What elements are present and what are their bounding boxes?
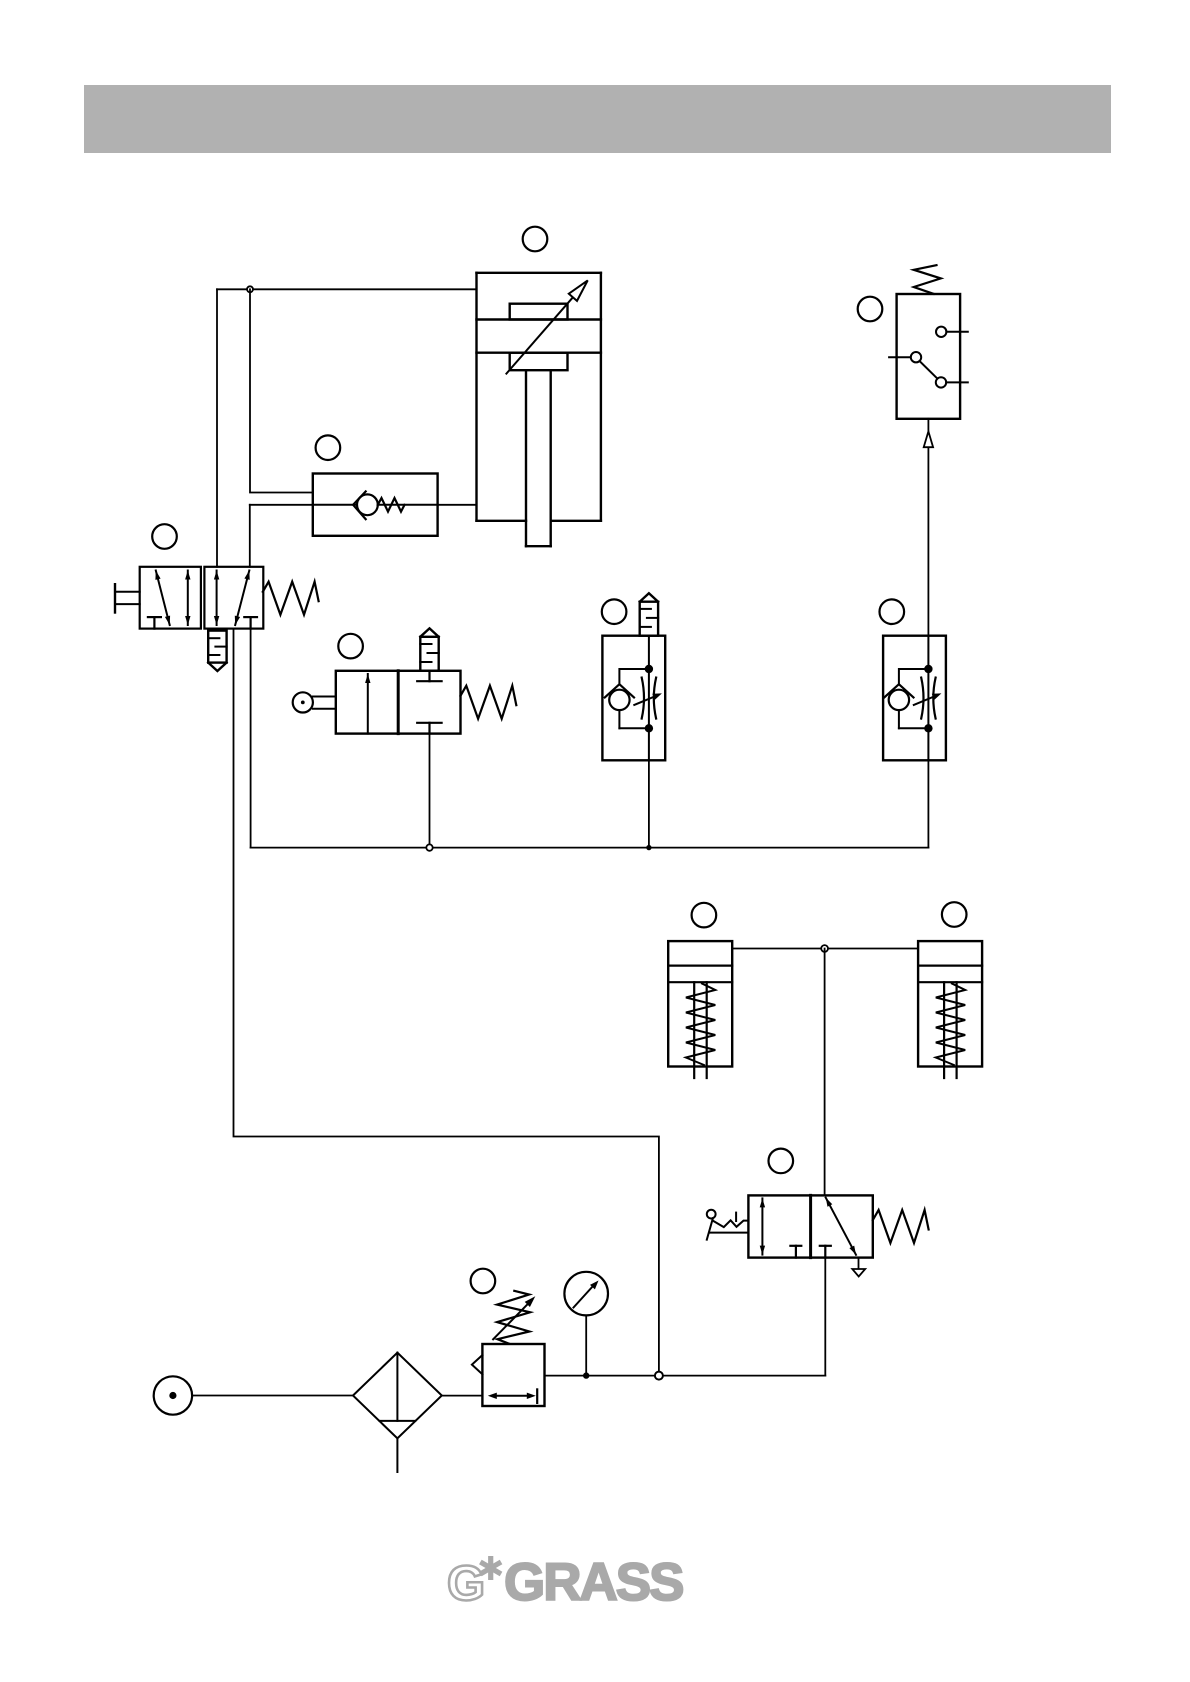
label circle for cylinder C1 — [523, 227, 548, 252]
valve V1 exhaust silencer — [208, 631, 226, 671]
wire: flow control V7 top up to pilot of valve V3 — [927, 447, 929, 636]
label circle for check valve V5 — [316, 435, 341, 460]
label circle for cylinder C3 — [942, 902, 967, 927]
wire: J1 down to check valve V5 upper-left connection — [250, 289, 313, 492]
valve V2 flow path arrow — [365, 674, 370, 734]
wire: filter to regulator — [442, 1395, 483, 1397]
wire: J4 down to valve V4 top port — [824, 949, 826, 1196]
valve V4 idle-return roller lever — [707, 1210, 749, 1240]
wire: node at V1 port 4 up and across to cylinder C1 upper port — [217, 289, 477, 567]
valve V3 spring — [914, 265, 941, 294]
wire: V2 output down to bus — [429, 734, 431, 848]
regulator R1 adjustment spring — [497, 1291, 530, 1344]
wire: flow control V6 bottom to bus — [648, 760, 650, 847]
label circle for regulator R1 — [471, 1269, 496, 1294]
label circle for flow control V6 — [602, 599, 627, 624]
valve V4 return spring — [873, 1210, 929, 1243]
valve V1 body (5/2 hand valve) — [140, 567, 264, 629]
valve V4 flow path vertical — [760, 1198, 765, 1254]
valve V2 blocked port T top — [417, 671, 441, 681]
junction J3 on bus at V6 — [646, 845, 651, 850]
wire: cylinder C2 port to cylinder C3 port — [732, 948, 918, 950]
check valve V5 (spring-loaded, in enclosure) — [313, 474, 438, 536]
valve V4 flow path diagonal — [826, 1198, 856, 1255]
valve V1 flow path vertical left — [185, 571, 190, 626]
junction J6 at supply riser — [655, 1372, 663, 1380]
valve V4 blocked port T right — [820, 1246, 831, 1258]
flow control valve V6 silencer — [640, 593, 658, 635]
junction J5 at gauge connection — [583, 1372, 589, 1378]
air supply source S1 — [154, 1376, 192, 1414]
wire: valve V4 bottom port down to regulator output line — [824, 1258, 826, 1376]
valve V2 blocked port T bottom — [417, 723, 441, 734]
valve V1 flow path diagonal right — [235, 571, 250, 626]
valve V4 exhaust port — [852, 1258, 865, 1277]
valve V1 flow path vertical right — [214, 571, 219, 626]
valve V4 blocked port T left — [790, 1246, 801, 1258]
wire: V1 port 1 supply line down, across and down to regulator output node J6 — [234, 629, 659, 1376]
filter F1 (with water trap) — [353, 1353, 442, 1472]
valve V3 contact lower right — [936, 377, 968, 387]
GRASS logo — [447, 1553, 683, 1612]
valve V1 flow path diagonal left — [155, 571, 170, 626]
flow control valve V7 (throttle with check bypass) — [883, 636, 946, 761]
valve V3 switch link — [920, 361, 938, 379]
svg-text:GRASS: GRASS — [504, 1553, 683, 1612]
junction J4 between cylinders — [821, 945, 828, 952]
junction J1 — [247, 286, 253, 292]
wire: bus up to flow control V7 bottom — [927, 760, 929, 847]
label circle for valve V3 — [858, 297, 883, 322]
cylinder C2 (single-acting, spring return) — [668, 941, 732, 1078]
valve V3 body (pneumatic switch) — [897, 294, 961, 419]
flow control valve V6 (throttle with check bypass) — [602, 636, 665, 761]
wire: check valve V5 left port to V1 port 2 — [250, 505, 313, 567]
label circle for valve V2 — [338, 634, 363, 659]
valve V2 return spring — [461, 686, 517, 719]
regulator R1 adjustment arrow — [493, 1296, 535, 1339]
label circle for valve V1 — [152, 524, 177, 549]
cylinder C1 (press ram with adjustable stroke) — [477, 273, 601, 546]
valve V3 contact upper right — [936, 327, 968, 337]
title bar — [84, 85, 1111, 153]
valve V1 return spring — [263, 582, 319, 615]
wire: V1 port 3 down to signal bus — [250, 629, 252, 848]
label circle for flow control V7 — [880, 599, 905, 624]
wire: check valve V5 right port to cylinder C1 lower port — [438, 504, 477, 506]
label circle for valve V4 — [769, 1149, 794, 1174]
label circle for cylinder C2 — [692, 903, 717, 928]
valve V3 pilot arrow — [924, 419, 933, 447]
valve V1 plunger actuator — [115, 584, 140, 612]
valve V2 exhaust silencer — [420, 628, 438, 670]
valve V2 body (3/2 roller valve) — [336, 671, 461, 734]
valve V4 body (3/2 lever valve) — [748, 1195, 872, 1257]
cylinder C3 (single-acting, spring return) — [918, 941, 982, 1078]
valve V1 blocked port T right — [244, 617, 257, 629]
valve V2 roller actuator — [293, 692, 336, 712]
wire: signal bus from V1 to flow control V7 — [251, 847, 929, 849]
pressure regulator R1 — [472, 1344, 545, 1406]
svg-text:G: G — [447, 1557, 485, 1611]
junction J2 on bus at V2 — [426, 844, 432, 850]
wire: air source to filter — [192, 1395, 353, 1397]
wire: regulator output line to V4 — [545, 1375, 826, 1377]
pressure gauge G1 — [564, 1272, 608, 1376]
valve V3 contact left — [889, 352, 921, 362]
valve V1 blocked port T left — [148, 617, 161, 629]
